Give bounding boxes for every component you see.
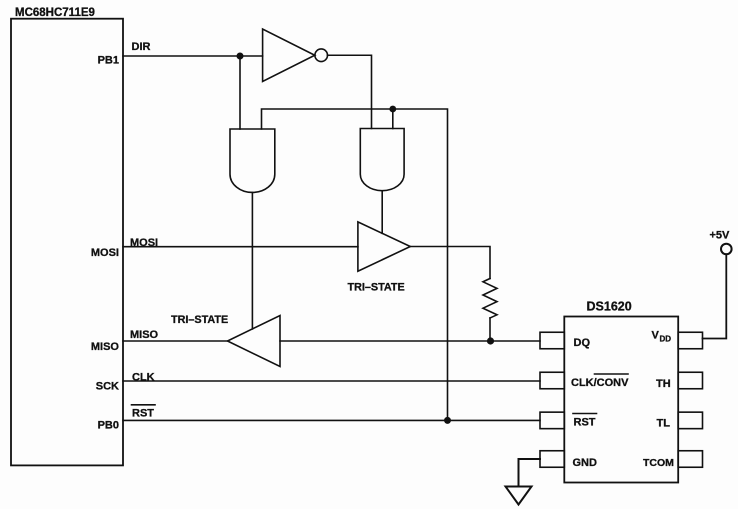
resistor R1 [483,279,497,319]
junction dot on RST line [444,417,451,424]
wire AND2 right input drop [392,109,394,129]
pin box RST [540,412,564,429]
inverter output bubble [315,49,328,62]
inverter U2 (NOT gate) [263,29,315,82]
svg-text:CLK/CONV: CLK/CONV [571,377,629,389]
svg-text:GND: GND [573,457,598,469]
wire DQ line from MISO buffer to DS1620 DQ pin [280,340,540,342]
svg-text:PB1: PB1 [98,55,119,67]
ground symbol [506,487,532,505]
wire CLK from MCU to DS1620 [123,380,540,382]
wire DIR from PB1 to inverter input [123,55,263,57]
tri-state buffer U3 (MOSI, points right) [358,222,410,271]
svg-text:V: V [652,330,660,342]
svg-text:DQ: DQ [574,337,591,349]
svg-text:+5V: +5V [710,230,731,242]
wire DIR drop to AND1 left input [239,56,241,129]
pin box TH [678,372,702,389]
pin box GND [540,451,564,468]
AND gate G1 (left, pointing down) [230,129,275,192]
wire inverter output to AND2 left input [328,55,372,128]
wire MOSI buffer output to resistor top [410,247,490,279]
wire GND pin to ground symbol [519,459,541,487]
wire AND-enable bus (horizontal y=109) [262,109,448,420]
svg-text:TCOM: TCOM [643,457,674,469]
svg-text:TRI–STATE: TRI–STATE [171,314,228,326]
junction dot AND2 right input [389,106,396,113]
svg-text:MISO: MISO [130,329,159,341]
svg-text:TL: TL [657,418,671,430]
wire MOSI from MCU to buffer input [123,246,358,248]
junction dot on DIR line [237,53,244,60]
pin box DQ [540,332,564,349]
wire RST from MCU to DS1620 [123,419,540,421]
wire MISO from MCU to buffer output vertex [123,340,228,342]
svg-text:CLK: CLK [132,372,155,384]
pin box TL [678,412,702,429]
MCU U1 MC68HC711E9 box [11,19,123,466]
svg-text:MISO: MISO [91,341,120,353]
junction dot resistor/DQ [487,337,494,344]
svg-text:TH: TH [656,378,671,390]
pin box CLK/CONV [540,372,564,389]
svg-text:MOSI: MOSI [91,247,119,259]
svg-text:PB0: PB0 [98,420,119,432]
svg-text:MC68HC711E9: MC68HC711E9 [15,7,95,19]
svg-text:RST: RST [132,407,154,419]
pin box TCOM [678,451,702,468]
svg-text:DIR: DIR [132,41,151,53]
wire AND2 output to MOSI buffer control [381,191,383,233]
+5V supply terminal circle [721,244,732,255]
AND gate G2 (right, pointing down) [360,129,404,191]
svg-text:SCK: SCK [96,381,119,393]
tri-state buffer U4 (MISO, points left) [228,316,281,367]
svg-text:DD: DD [660,335,672,344]
wire AND1 output to MISO buffer control [251,193,253,330]
svg-text:DS1620: DS1620 [587,300,632,314]
pin box VDD [678,332,702,349]
wire +5V to VDD pin [703,254,727,338]
DS1620 U5 box [564,317,678,483]
wire resistor bottom to DQ line [489,318,491,341]
svg-text:TRI–STATE: TRI–STATE [348,282,405,294]
svg-text:RST: RST [574,417,596,429]
